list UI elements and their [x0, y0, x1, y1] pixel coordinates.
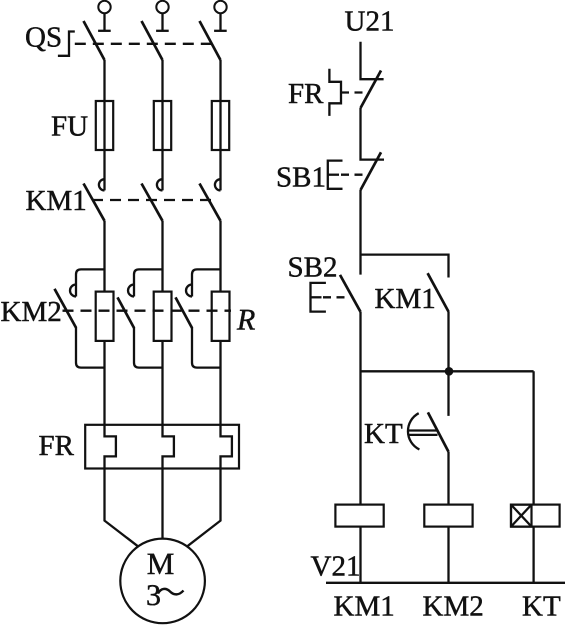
- svg-text:M: M: [147, 546, 175, 581]
- svg-text:KT: KT: [522, 591, 561, 623]
- svg-text:FR: FR: [39, 430, 75, 462]
- svg-text:U21: U21: [345, 6, 395, 38]
- svg-text:KM1: KM1: [334, 591, 395, 623]
- svg-text:SB1: SB1: [276, 162, 326, 194]
- svg-text:FU: FU: [51, 111, 88, 143]
- svg-text:3: 3: [146, 579, 161, 612]
- svg-text:KM1: KM1: [375, 283, 436, 315]
- svg-text:SB2: SB2: [288, 252, 338, 284]
- svg-text:KM2: KM2: [423, 591, 484, 623]
- svg-text:KT: KT: [364, 418, 403, 450]
- svg-text:R: R: [236, 304, 255, 337]
- svg-text:FR: FR: [288, 78, 324, 110]
- svg-text:V21: V21: [311, 551, 361, 583]
- svg-text:KM2: KM2: [1, 296, 62, 328]
- svg-text:QS: QS: [25, 22, 62, 54]
- svg-text:KM1: KM1: [26, 185, 87, 217]
